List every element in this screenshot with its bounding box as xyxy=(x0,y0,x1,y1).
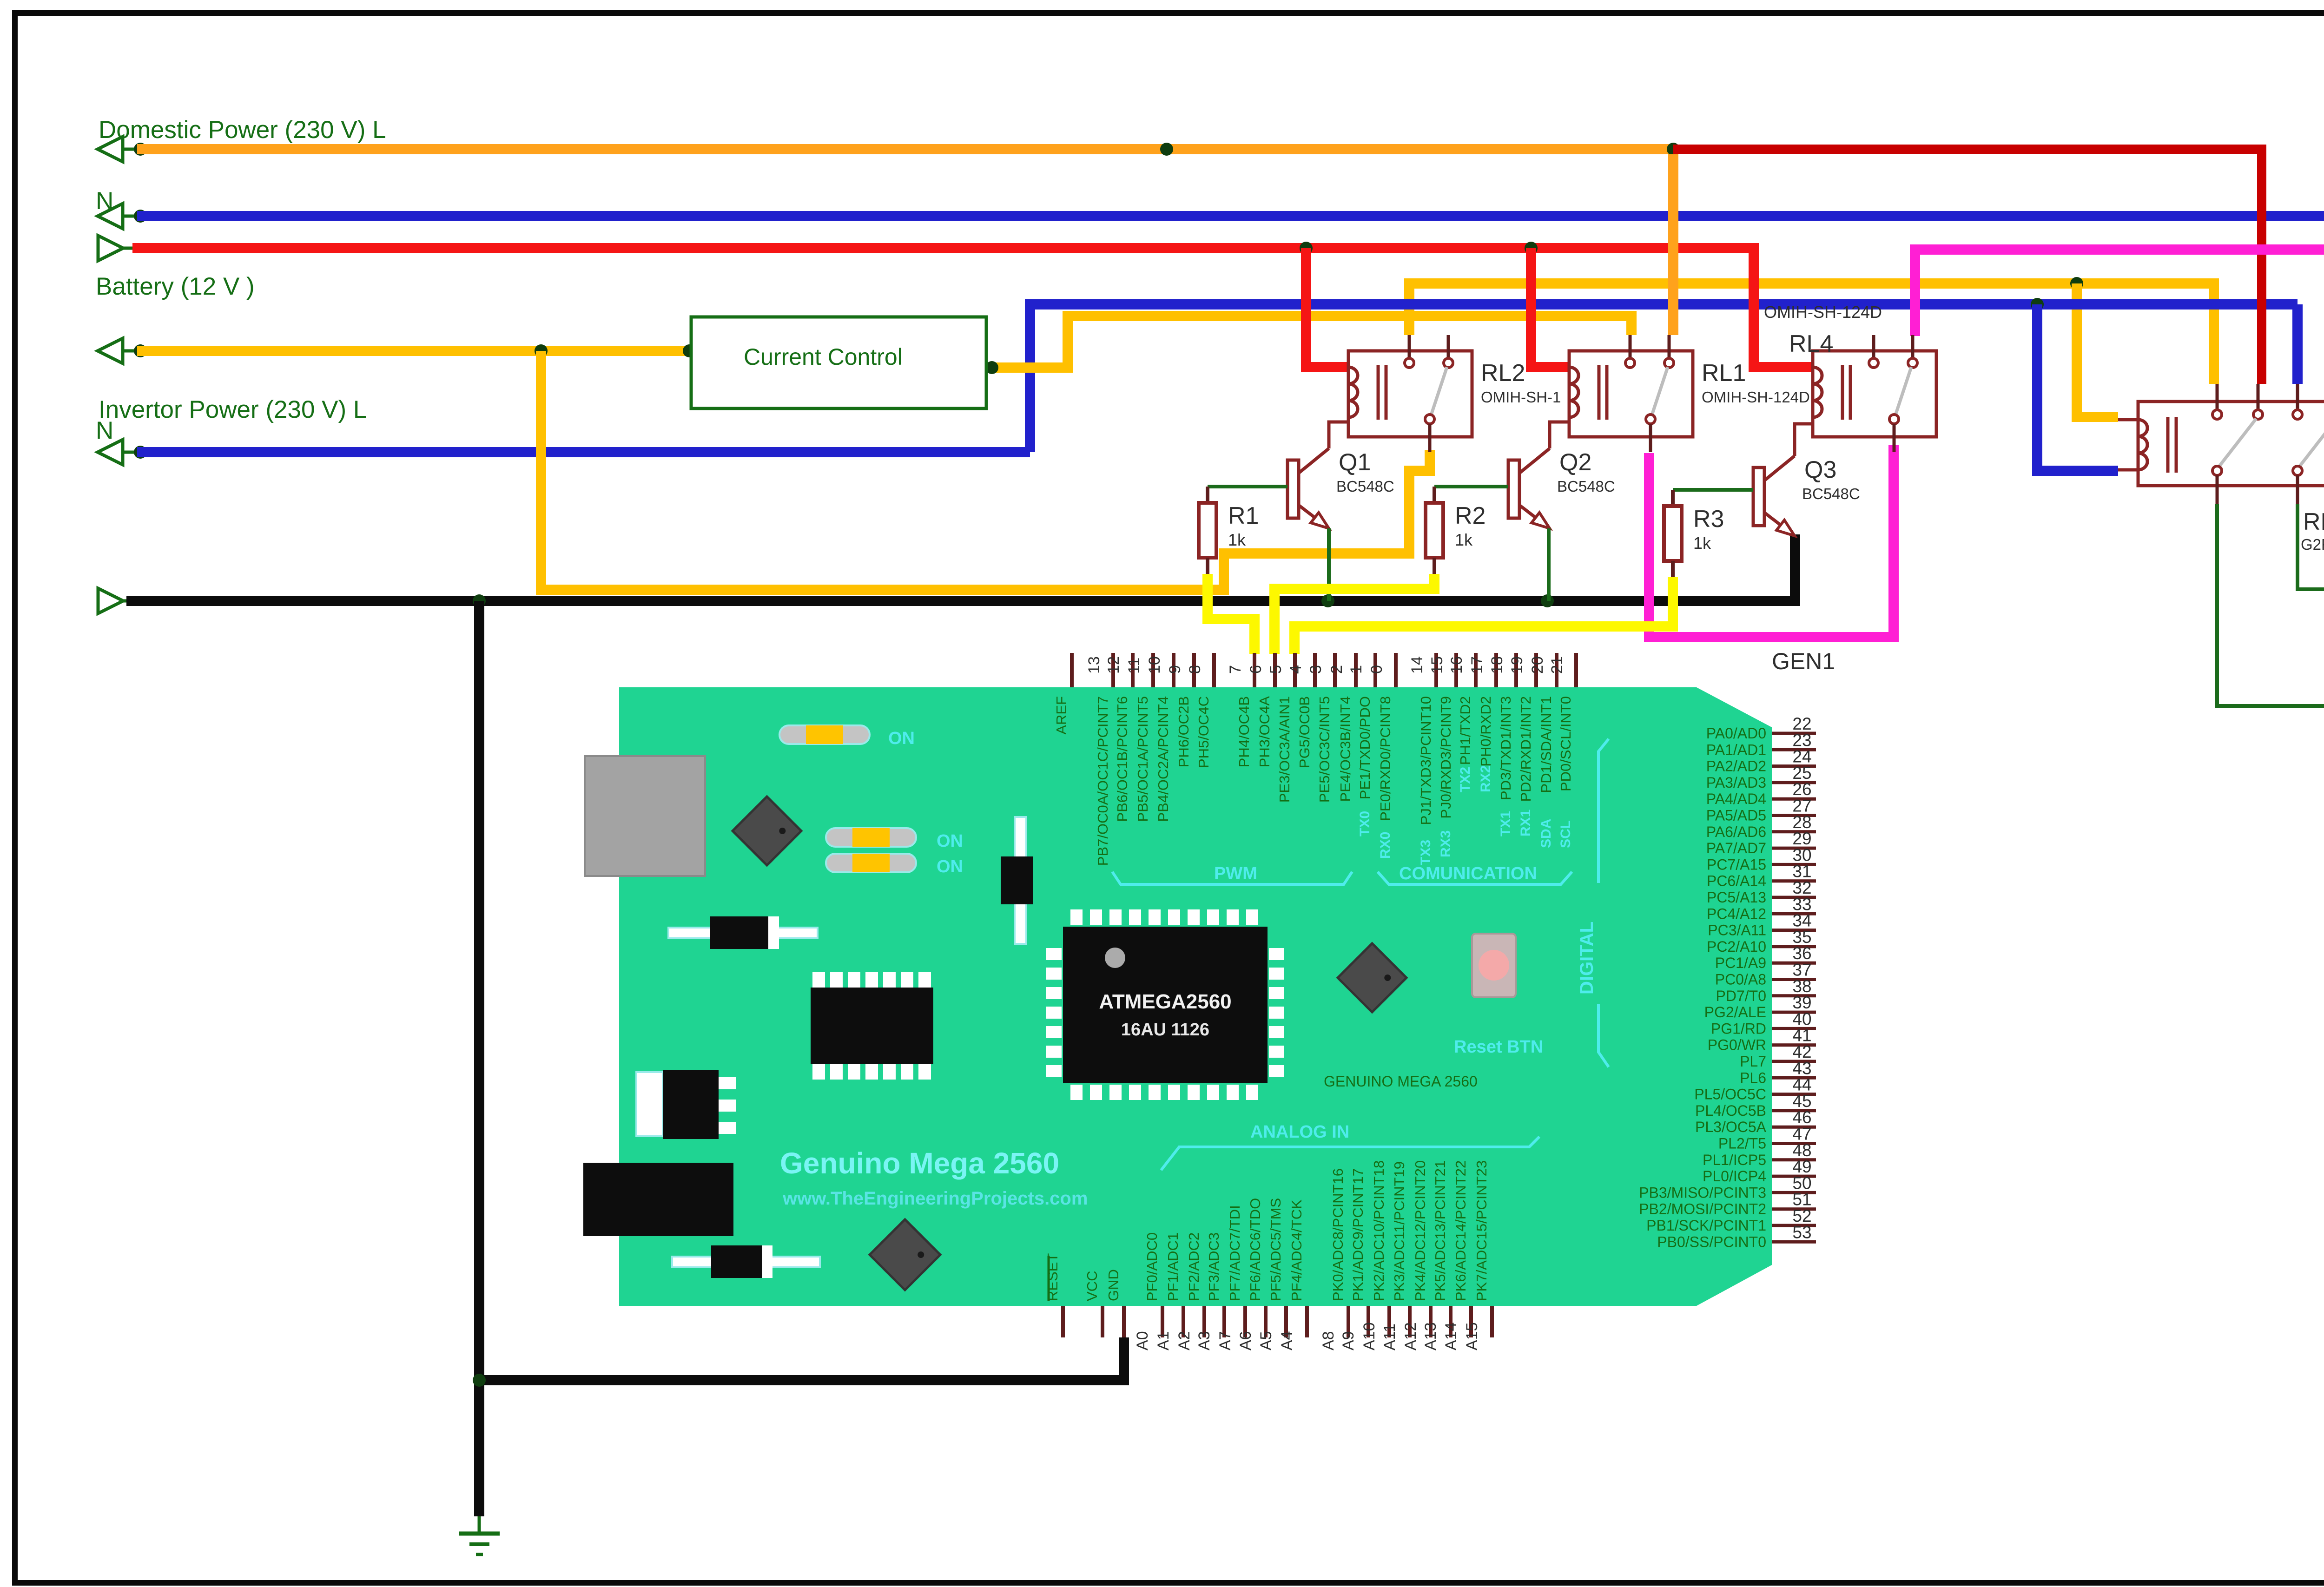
wire yellow R1 to pin7 xyxy=(1208,574,1254,654)
pin 11 top xyxy=(1151,653,1155,687)
pin 32 right xyxy=(1772,896,1816,899)
svg-text:PC4/A12: PC4/A12 xyxy=(1707,905,1766,922)
relay RL2 contacts xyxy=(1408,335,1411,359)
crystal X1 xyxy=(733,797,801,865)
svg-text:PF4/ADC4/TCK: PF4/ADC4/TCK xyxy=(1288,1199,1305,1301)
svg-text:A8: A8 xyxy=(1320,1331,1337,1350)
pin 41 right xyxy=(1772,1043,1816,1047)
svg-text:PC5/A13: PC5/A13 xyxy=(1707,889,1766,906)
svg-text:Current Control: Current Control xyxy=(744,344,903,370)
pin 43 right xyxy=(1772,1076,1816,1080)
terminal arrow battery xyxy=(98,236,123,261)
terminal arrow domestic N xyxy=(98,204,123,229)
terminal arrow ground rail xyxy=(98,588,123,613)
svg-text:PD3/TXD1/INT3: PD3/TXD1/INT3 xyxy=(1498,696,1514,800)
svg-text:PF1/ADC1: PF1/ADC1 xyxy=(1165,1232,1181,1301)
svg-text:6: 6 xyxy=(1247,665,1265,674)
wire black from GND pin xyxy=(479,1337,1124,1380)
wire magenta GEN1 xyxy=(1649,445,1894,637)
svg-text:PJ1/TXD3/PCINT10: PJ1/TXD3/PCINT10 xyxy=(1418,696,1434,825)
svg-text:BC548C: BC548C xyxy=(1336,478,1394,495)
svg-text:19: 19 xyxy=(1508,656,1526,674)
svg-text:PL0/ICP4: PL0/ICP4 xyxy=(1703,1168,1766,1185)
svg-text:PE4/OC3B/INT4: PE4/OC3B/INT4 xyxy=(1337,696,1353,802)
resistor R2 xyxy=(1433,487,1436,503)
svg-text:PK4/ADC12/PCINT20: PK4/ADC12/PCINT20 xyxy=(1412,1160,1428,1301)
pin 1 top xyxy=(1373,653,1377,687)
pin A0 bottom xyxy=(1161,1306,1164,1337)
svg-text:PA0/AD0: PA0/AD0 xyxy=(1706,725,1766,742)
svg-text:14: 14 xyxy=(1408,656,1426,674)
pin 21 top xyxy=(1574,653,1578,687)
svg-text:DIGITAL: DIGITAL xyxy=(1577,922,1597,994)
pin 48 right xyxy=(1772,1158,1816,1161)
svg-text:13: 13 xyxy=(1085,656,1103,674)
wire blue riser xyxy=(1030,304,2298,452)
pin 10 top xyxy=(1172,653,1175,687)
svg-text:17: 17 xyxy=(1468,656,1486,674)
svg-text:12: 12 xyxy=(1105,656,1122,674)
svg-text:PK1/ADC9/PCINT17: PK1/ADC9/PCINT17 xyxy=(1350,1168,1366,1301)
svg-text:PB2/MOSI/PCINT2: PB2/MOSI/PCINT2 xyxy=(1639,1201,1766,1218)
ic ATMEGA2560 xyxy=(1070,909,1083,925)
wire red to RL4 coil xyxy=(1754,243,1813,367)
pin 31 right xyxy=(1772,879,1816,882)
pin 49 right xyxy=(1772,1175,1816,1178)
pin A5 bottom xyxy=(1284,1306,1288,1337)
svg-text:1k: 1k xyxy=(1228,530,1246,549)
relay RL1 coil xyxy=(1569,367,1578,417)
wire invertor L gold xyxy=(137,346,691,356)
svg-text:10: 10 xyxy=(1146,656,1163,674)
relay RL4 coil xyxy=(1813,367,1822,417)
svg-text:PC0/A8: PC0/A8 xyxy=(1715,971,1766,988)
svg-text:R1: R1 xyxy=(1228,502,1259,529)
relay RL2 coil xyxy=(1348,367,1358,417)
bracket DIGITAL xyxy=(1598,739,1609,883)
pin 24 right xyxy=(1772,764,1816,768)
relay RL3 contacts bottom xyxy=(2212,466,2222,475)
svg-text:AREF: AREF xyxy=(1053,696,1070,735)
wire blue branch to RL3 coil bottom xyxy=(2037,304,2118,471)
svg-text:ON: ON xyxy=(937,831,963,851)
svg-text:PF0/ADC0: PF0/ADC0 xyxy=(1144,1232,1160,1301)
pin 8 top xyxy=(1212,653,1216,687)
svg-text:OMIH-SH-124D: OMIH-SH-124D xyxy=(1764,303,1882,322)
svg-text:PK7/ADC15/PCINT23: PK7/ADC15/PCINT23 xyxy=(1473,1160,1490,1301)
pin 19 top xyxy=(1534,653,1538,687)
svg-text:N: N xyxy=(96,417,113,444)
svg-text:PC7/A15: PC7/A15 xyxy=(1707,856,1766,873)
pin 12 top xyxy=(1131,653,1135,687)
wire blue drop to RL3 pin3 xyxy=(2292,304,2303,384)
svg-text:ANALOG IN: ANALOG IN xyxy=(1250,1122,1349,1142)
svg-text:PK2/ADC10/PCINT18: PK2/ADC10/PCINT18 xyxy=(1371,1160,1387,1301)
led ON 3 xyxy=(826,854,916,872)
pin A14 bottom xyxy=(1469,1306,1473,1337)
wire red to RL2 coil xyxy=(1306,248,1348,367)
svg-text:COMUNICATION: COMUNICATION xyxy=(1399,864,1537,883)
svg-text:PB6/OC1B/PCINT6: PB6/OC1B/PCINT6 xyxy=(1114,696,1130,822)
pin 16 top xyxy=(1474,653,1478,687)
svg-text:PH3/OC4A: PH3/OC4A xyxy=(1256,696,1273,768)
svg-text:PL3/OC5A: PL3/OC5A xyxy=(1695,1119,1767,1135)
wire invertor N blue xyxy=(137,447,1030,457)
pin 14 top xyxy=(1434,653,1438,687)
svg-text:ATMEGA2560: ATMEGA2560 xyxy=(1099,990,1231,1013)
svg-text:PE5/OC3C/INT5: PE5/OC3C/INT5 xyxy=(1316,696,1333,803)
svg-text:Genuino Mega 2560: Genuino Mega 2560 xyxy=(780,1146,1059,1180)
svg-text:PH0/RXD2: PH0/RXD2 xyxy=(1478,696,1494,767)
pin 35 right xyxy=(1772,945,1816,948)
pin 52 right xyxy=(1772,1224,1816,1227)
svg-text:PK5/ADC13/PCINT21: PK5/ADC13/PCINT21 xyxy=(1432,1160,1448,1301)
wire yellow R3 to pin5 xyxy=(1294,577,1673,654)
svg-text:TX0: TX0 xyxy=(1357,811,1373,836)
pin A13 bottom xyxy=(1449,1306,1452,1337)
svg-text:PC6/A14: PC6/A14 xyxy=(1707,873,1766,889)
transistor Q3 xyxy=(1753,468,1764,526)
svg-text:PE3/OC3A/AIN1: PE3/OC3A/AIN1 xyxy=(1276,696,1293,803)
svg-text:ON: ON xyxy=(888,729,915,748)
svg-text:8: 8 xyxy=(1186,665,1204,674)
pin 45 right xyxy=(1772,1109,1816,1112)
terminal arrow invertor N xyxy=(98,440,123,465)
pin 51 right xyxy=(1772,1207,1816,1211)
relay RL3 contacts top xyxy=(2216,384,2219,410)
svg-text:BC548C: BC548C xyxy=(1557,478,1615,495)
pin 29 right xyxy=(1772,847,1816,850)
wire domestic L orange xyxy=(137,144,1673,154)
block Current Control xyxy=(691,317,986,408)
relay RL3 box xyxy=(2138,402,2324,486)
svg-text:PF2/ADC2: PF2/ADC2 xyxy=(1186,1232,1202,1301)
wire dark red drop to RL3 pin2 xyxy=(2257,145,2266,384)
pin A10 bottom xyxy=(1387,1306,1391,1337)
wire battery 12V red xyxy=(132,243,1754,253)
svg-text:5: 5 xyxy=(1267,665,1285,674)
svg-text:SCL: SCL xyxy=(1558,820,1573,848)
svg-text:A13: A13 xyxy=(1422,1323,1439,1351)
svg-text:PJ0/RXD3/PCINT9: PJ0/RXD3/PCINT9 xyxy=(1438,696,1454,819)
pin 7 top xyxy=(1253,653,1256,687)
svg-text:PC2/A10: PC2/A10 xyxy=(1707,938,1766,955)
svg-text:RL2: RL2 xyxy=(1481,360,1525,387)
wire green RL3 to N circle xyxy=(2298,504,2324,589)
relay RL1 contacts xyxy=(1629,335,1632,359)
wire Q2 emitter to ground xyxy=(1547,528,1551,601)
pin GND bottom xyxy=(1122,1306,1126,1337)
diode D1 xyxy=(668,928,818,938)
svg-text:RL4: RL4 xyxy=(1789,330,1833,357)
svg-text:Domestic Power (230 V) L: Domestic Power (230 V) L xyxy=(99,116,386,144)
crystal X2 xyxy=(1338,943,1406,1012)
pin 23 right xyxy=(1772,748,1816,751)
wire gold overlays at blue crossings xyxy=(536,435,546,472)
wire green RL3 to DB circle xyxy=(2217,504,2324,706)
bracket ANALOG IN xyxy=(1161,1137,1539,1170)
pin 9 top xyxy=(1192,653,1196,687)
svg-text:A12: A12 xyxy=(1402,1323,1419,1351)
svg-text:3: 3 xyxy=(1307,665,1325,674)
svg-text:RX1: RX1 xyxy=(1518,810,1533,836)
svg-text:www.TheEngineeringProjects.com: www.TheEngineeringProjects.com xyxy=(782,1188,1088,1209)
svg-text:PB3/MISO/PCINT3: PB3/MISO/PCINT3 xyxy=(1639,1184,1766,1201)
bracket COMUNICATION xyxy=(1378,872,1572,884)
led ON 2 xyxy=(826,828,916,847)
RESET overline xyxy=(1048,1256,1050,1301)
svg-text:PD0/SCL/INT0: PD0/SCL/INT0 xyxy=(1558,696,1574,791)
pin VCC bottom xyxy=(1101,1306,1104,1337)
svg-text:PF7/ADC7/TDI: PF7/ADC7/TDI xyxy=(1227,1205,1243,1301)
pin 0 top xyxy=(1394,653,1398,687)
svg-text:PWM: PWM xyxy=(1214,864,1257,883)
svg-text:BC548C: BC548C xyxy=(1802,485,1860,502)
pin A11 bottom xyxy=(1408,1306,1412,1337)
svg-text:PA2/AD2: PA2/AD2 xyxy=(1706,758,1766,775)
svg-text:PG1/RD: PG1/RD xyxy=(1711,1020,1766,1037)
wire Q1 base xyxy=(1208,485,1287,488)
wire ground rail black xyxy=(126,596,1795,606)
svg-text:OMIH-SH-124D: OMIH-SH-124D xyxy=(1702,389,1810,406)
relay RL4 contacts xyxy=(1872,335,1875,359)
pin 3 top xyxy=(1333,653,1337,687)
svg-text:PL7: PL7 xyxy=(1740,1053,1766,1070)
pin 50 right xyxy=(1772,1191,1816,1194)
relay RL1 box xyxy=(1569,351,1693,437)
svg-text:RESET: RESET xyxy=(1044,1253,1061,1301)
wire gold invertor to RL2 common xyxy=(541,351,1430,590)
svg-text:RX3: RX3 xyxy=(1438,830,1453,857)
svg-text:VCC: VCC xyxy=(1084,1271,1100,1301)
svg-text:RL1: RL1 xyxy=(1702,360,1746,387)
wire Q3 base xyxy=(1673,488,1753,492)
svg-text:7: 7 xyxy=(1227,665,1244,674)
relay RL4 box xyxy=(1813,351,1936,437)
ground symbol xyxy=(478,1516,481,1533)
svg-text:0: 0 xyxy=(1368,665,1386,674)
svg-text:1: 1 xyxy=(1347,665,1365,674)
svg-text:21: 21 xyxy=(1548,656,1566,674)
bracket PWM xyxy=(1112,872,1352,884)
svg-text:PA4/AD4: PA4/AD4 xyxy=(1706,790,1766,807)
pin A8 bottom xyxy=(1347,1306,1350,1337)
svg-text:A2: A2 xyxy=(1175,1331,1193,1350)
pin 17 top xyxy=(1494,653,1498,687)
svg-text:PF5/ADC5/TMS: PF5/ADC5/TMS xyxy=(1268,1198,1284,1301)
svg-text:A4: A4 xyxy=(1278,1331,1296,1350)
svg-text:PG5/OC0B: PG5/OC0B xyxy=(1296,696,1313,768)
wire black riser to Q3 emitter xyxy=(1790,534,1800,606)
pin A9 bottom xyxy=(1367,1306,1370,1337)
svg-text:16AU 1126: 16AU 1126 xyxy=(1121,1020,1209,1040)
svg-text:PH1/TXD2: PH1/TXD2 xyxy=(1457,696,1473,765)
pin A2 bottom xyxy=(1202,1306,1206,1337)
svg-text:PK3/ADC11/PCINT19: PK3/ADC11/PCINT19 xyxy=(1391,1161,1407,1301)
wire black vertical to ground xyxy=(474,601,484,1516)
pin A15 bottom xyxy=(1490,1306,1494,1337)
relay RL3 arms xyxy=(2219,419,2256,467)
svg-text:PH6/OC2B: PH6/OC2B xyxy=(1175,696,1192,767)
terminal arrow Domestic L xyxy=(98,137,123,162)
svg-text:PA7/AD7: PA7/AD7 xyxy=(1706,840,1766,856)
reset button xyxy=(1472,934,1516,997)
pin 46 right xyxy=(1772,1126,1816,1129)
wire Q1 emitter to ground xyxy=(1327,528,1331,601)
pin 37 right xyxy=(1772,978,1816,981)
svg-text:Reset BTN: Reset BTN xyxy=(1454,1037,1543,1057)
ic U2 14pin xyxy=(812,972,825,988)
transistor Q2 xyxy=(1508,460,1519,518)
usb connector xyxy=(585,756,705,876)
crystal X3 xyxy=(870,1219,940,1290)
wire domestic N blue xyxy=(137,211,2324,221)
svg-text:RL3: RL3 xyxy=(2303,508,2324,535)
pin A6 bottom xyxy=(1264,1306,1268,1337)
svg-text:PK6/ADC14/PCINT22: PK6/ADC14/PCINT22 xyxy=(1452,1160,1469,1301)
svg-text:PD2/RXD1/INT2: PD2/RXD1/INT2 xyxy=(1518,696,1534,802)
relay RL1 arm xyxy=(1652,367,1668,415)
pin 38 right xyxy=(1772,994,1816,997)
svg-text:PC1/A9: PC1/A9 xyxy=(1715,955,1766,971)
pin 26 right xyxy=(1772,797,1816,801)
svg-text:1k: 1k xyxy=(1693,533,1711,553)
svg-text:A11: A11 xyxy=(1381,1324,1399,1350)
svg-text:PF3/ADC3: PF3/ADC3 xyxy=(1206,1232,1222,1301)
svg-text:R2: R2 xyxy=(1455,502,1486,529)
pin 5 top xyxy=(1293,653,1297,687)
relay RL4 common pin xyxy=(1893,424,1896,452)
svg-text:A0: A0 xyxy=(1134,1331,1151,1350)
svg-text:PG0/WR: PG0/WR xyxy=(1708,1037,1766,1054)
pin 47 right xyxy=(1772,1142,1816,1145)
svg-text:4: 4 xyxy=(1287,665,1305,674)
pin A7 bottom xyxy=(1243,1306,1247,1337)
wire yellow R2 to pin6 xyxy=(1274,574,1434,654)
svg-text:1k: 1k xyxy=(1455,530,1473,549)
svg-text:GENUINO MEGA 2560: GENUINO MEGA 2560 xyxy=(1324,1073,1478,1090)
resistor R1 xyxy=(1206,487,1209,503)
relay RL3 coil xyxy=(2118,418,2138,421)
svg-text:PH5/OC4C: PH5/OC4C xyxy=(1195,696,1212,768)
svg-text:PF6/ADC6/TDO: PF6/ADC6/TDO xyxy=(1247,1198,1263,1301)
pin 2 top xyxy=(1354,653,1358,687)
svg-text:R3: R3 xyxy=(1693,506,1724,533)
pin 18 top xyxy=(1514,653,1518,687)
pin A3 bottom xyxy=(1222,1306,1226,1337)
pin 4 top xyxy=(1313,653,1317,687)
svg-text:TX1: TX1 xyxy=(1498,811,1513,836)
wire orange drop to RL1 pin (over) xyxy=(1668,154,1678,335)
svg-text:PK0/ADC8/PCINT16: PK0/ADC8/PCINT16 xyxy=(1330,1168,1346,1301)
diode D2 vertical xyxy=(1015,817,1026,944)
svg-text:16: 16 xyxy=(1448,656,1466,674)
svg-text:PL6: PL6 xyxy=(1740,1069,1766,1086)
pin 53 right xyxy=(1772,1240,1816,1244)
svg-text:TX2: TX2 xyxy=(1458,767,1473,792)
svg-text:PA3/AD3: PA3/AD3 xyxy=(1706,774,1766,791)
svg-text:PC3/A11: PC3/A11 xyxy=(1708,922,1766,939)
svg-text:A6: A6 xyxy=(1237,1331,1254,1350)
pin A12 bottom xyxy=(1429,1306,1433,1337)
transistor Q1 xyxy=(1287,460,1299,518)
relay RL4 arm xyxy=(1895,367,1911,415)
pin 36 right xyxy=(1772,961,1816,965)
terminal arrow invertor L xyxy=(98,338,123,363)
relay RL2 arm xyxy=(1431,367,1447,415)
svg-text:PB5/OC1A/PCINT5: PB5/OC1A/PCINT5 xyxy=(1135,696,1151,822)
svg-text:G2R-2S-AC220: G2R-2S-AC220 xyxy=(2301,536,2324,553)
pin A4 bottom xyxy=(1305,1306,1309,1337)
relay RL1 common pin xyxy=(1649,424,1652,452)
pin 28 right xyxy=(1772,830,1816,833)
led ON 1 xyxy=(779,725,870,744)
svg-text:A10: A10 xyxy=(1360,1323,1378,1351)
svg-text:RX0: RX0 xyxy=(1378,832,1393,859)
svg-text:A14: A14 xyxy=(1442,1323,1460,1351)
voltage regulator xyxy=(636,1072,663,1136)
svg-text:18: 18 xyxy=(1488,656,1506,674)
pin 30 right xyxy=(1772,863,1816,866)
pin 6 top xyxy=(1273,653,1277,687)
pin 15 top xyxy=(1454,653,1458,687)
svg-text:A7: A7 xyxy=(1216,1331,1234,1350)
svg-text:PL1/ICP5: PL1/ICP5 xyxy=(1703,1152,1766,1168)
svg-text:9: 9 xyxy=(1166,665,1184,674)
svg-text:Q2: Q2 xyxy=(1559,449,1591,476)
pin 42 right xyxy=(1772,1060,1816,1063)
svg-text:PL2/T5: PL2/T5 xyxy=(1718,1135,1766,1152)
diode D3 xyxy=(672,1257,820,1267)
wire magenta geyser line xyxy=(1915,244,2324,255)
svg-text:53: 53 xyxy=(1792,1223,1811,1242)
svg-text:Q3: Q3 xyxy=(1804,456,1836,483)
wire red to RL1 coil xyxy=(1531,248,1569,367)
wire red drops (over) xyxy=(1301,253,1311,367)
svg-text:Invertor Power (230 V) L: Invertor Power (230 V) L xyxy=(99,396,367,423)
svg-text:2: 2 xyxy=(1328,665,1346,674)
power jack xyxy=(583,1163,733,1236)
pin 44 right xyxy=(1772,1093,1816,1096)
pin 33 right xyxy=(1772,912,1816,915)
svg-text:A1: A1 xyxy=(1155,1331,1172,1350)
wire gold current-control to RL1 pin xyxy=(986,316,1631,368)
svg-text:20: 20 xyxy=(1529,656,1546,674)
svg-text:RX2: RX2 xyxy=(1478,765,1493,792)
pin 22 right xyxy=(1772,732,1816,735)
relay RL2 box xyxy=(1348,351,1472,437)
pin AREF top xyxy=(1070,653,1074,687)
svg-text:SDA: SDA xyxy=(1538,819,1554,848)
pin 40 right xyxy=(1772,1027,1816,1030)
wire Q2 base xyxy=(1434,485,1508,488)
svg-text:GND: GND xyxy=(1105,1269,1122,1301)
svg-text:11: 11 xyxy=(1125,658,1143,674)
pin 20 top xyxy=(1555,653,1558,687)
wire gold branch to RL3 coil top xyxy=(2077,283,2118,417)
pin 34 right xyxy=(1772,928,1816,932)
pin 39 right xyxy=(1772,1011,1816,1014)
svg-text:A15: A15 xyxy=(1463,1323,1481,1351)
pin A1 bottom xyxy=(1182,1306,1185,1337)
svg-text:PH4/OC4B: PH4/OC4B xyxy=(1236,696,1252,767)
svg-text:PA1/AD1: PA1/AD1 xyxy=(1706,741,1766,758)
svg-text:PD7/T0: PD7/T0 xyxy=(1716,988,1766,1004)
wire Q2 collector to RL1 coil xyxy=(1550,422,1569,448)
svg-text:A3: A3 xyxy=(1195,1331,1213,1350)
svg-text:PB1/SCK/PCINT1: PB1/SCK/PCINT1 xyxy=(1646,1217,1766,1234)
wire orange drop to RL1 pin xyxy=(1668,149,1678,335)
